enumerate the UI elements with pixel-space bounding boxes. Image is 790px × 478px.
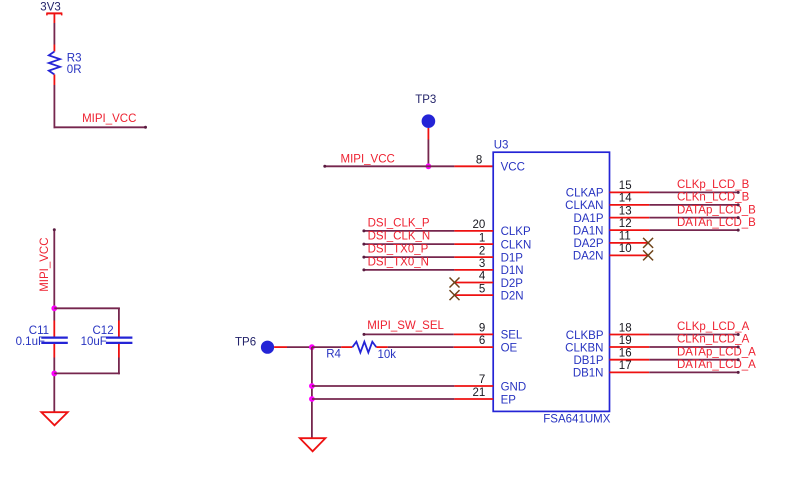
svg-text:11: 11 xyxy=(619,231,631,243)
svg-text:FSA641UMX: FSA641UMX xyxy=(543,414,610,426)
svg-text:4: 4 xyxy=(479,271,486,283)
svg-text:8: 8 xyxy=(476,155,482,167)
svg-text:R4: R4 xyxy=(326,348,341,360)
svg-text:10: 10 xyxy=(619,243,632,255)
svg-text:D2P: D2P xyxy=(501,278,524,290)
svg-text:9: 9 xyxy=(479,323,485,335)
svg-text:2: 2 xyxy=(479,245,485,257)
svg-text:D1N: D1N xyxy=(501,265,524,277)
svg-text:10k: 10k xyxy=(378,349,397,361)
svg-text:CLKp_LCD_B: CLKp_LCD_B xyxy=(677,179,750,191)
svg-text:0.1uF: 0.1uF xyxy=(16,336,45,348)
svg-text:MIPI_VCC: MIPI_VCC xyxy=(82,113,136,125)
svg-text:DA2P: DA2P xyxy=(573,238,603,250)
svg-text:GND: GND xyxy=(501,381,527,393)
svg-text:19: 19 xyxy=(619,335,632,347)
svg-text:EP: EP xyxy=(501,394,517,406)
svg-text:CLKN: CLKN xyxy=(501,239,532,251)
svg-text:3V3: 3V3 xyxy=(40,1,60,13)
svg-text:CLKAN: CLKAN xyxy=(565,200,603,212)
svg-text:5: 5 xyxy=(479,283,485,295)
svg-text:U3: U3 xyxy=(494,139,509,151)
svg-text:DB1P: DB1P xyxy=(573,355,603,367)
svg-text:10uF: 10uF xyxy=(81,336,107,348)
svg-text:DATAp_LCD_A: DATAp_LCD_A xyxy=(677,346,756,358)
svg-text:18: 18 xyxy=(619,322,632,334)
svg-text:CLKp_LCD_A: CLKp_LCD_A xyxy=(677,321,750,333)
svg-text:MIPI_VCC: MIPI_VCC xyxy=(341,153,395,165)
svg-text:R3: R3 xyxy=(67,52,82,64)
svg-text:DB1N: DB1N xyxy=(573,368,604,380)
svg-text:16: 16 xyxy=(619,348,632,360)
svg-text:DA1P: DA1P xyxy=(573,213,603,225)
svg-text:DSI_CLK_N: DSI_CLK_N xyxy=(368,231,431,243)
svg-text:DATAn_LCD_A: DATAn_LCD_A xyxy=(677,359,756,371)
svg-text:DSI_TX0_N: DSI_TX0_N xyxy=(368,257,429,269)
svg-text:7: 7 xyxy=(479,374,485,386)
svg-text:OE: OE xyxy=(501,342,518,354)
svg-text:DATAp_LCD_B: DATAp_LCD_B xyxy=(677,204,756,216)
svg-text:SEL: SEL xyxy=(501,330,523,342)
svg-text:D1P: D1P xyxy=(501,252,524,264)
svg-text:CLKBP: CLKBP xyxy=(566,330,604,342)
svg-text:TP6: TP6 xyxy=(235,336,256,348)
svg-text:15: 15 xyxy=(619,180,632,192)
svg-text:CLKBN: CLKBN xyxy=(565,342,603,354)
svg-text:CLKAP: CLKAP xyxy=(566,188,604,200)
svg-text:MIPI_VCC: MIPI_VCC xyxy=(39,237,51,291)
svg-text:VCC: VCC xyxy=(501,162,525,174)
svg-text:20: 20 xyxy=(473,219,486,231)
svg-text:DSI_TX0_P: DSI_TX0_P xyxy=(368,244,429,256)
svg-text:0R: 0R xyxy=(67,64,82,76)
svg-text:DATAn_LCD_B: DATAn_LCD_B xyxy=(677,217,756,229)
svg-text:13: 13 xyxy=(619,205,632,217)
svg-text:DSI_CLK_P: DSI_CLK_P xyxy=(368,218,430,230)
svg-text:6: 6 xyxy=(479,335,485,347)
svg-text:21: 21 xyxy=(473,387,486,399)
svg-text:1: 1 xyxy=(479,232,485,244)
svg-text:DA1N: DA1N xyxy=(573,225,604,237)
svg-text:D2N: D2N xyxy=(501,290,524,302)
svg-text:14: 14 xyxy=(619,193,632,205)
svg-text:CLKP: CLKP xyxy=(501,226,531,238)
svg-text:17: 17 xyxy=(619,360,632,372)
svg-text:DA2N: DA2N xyxy=(573,251,604,263)
svg-text:TP3: TP3 xyxy=(415,94,436,106)
svg-text:MIPI_SW_SEL: MIPI_SW_SEL xyxy=(367,320,444,332)
svg-text:12: 12 xyxy=(619,218,632,230)
svg-text:3: 3 xyxy=(479,258,485,270)
